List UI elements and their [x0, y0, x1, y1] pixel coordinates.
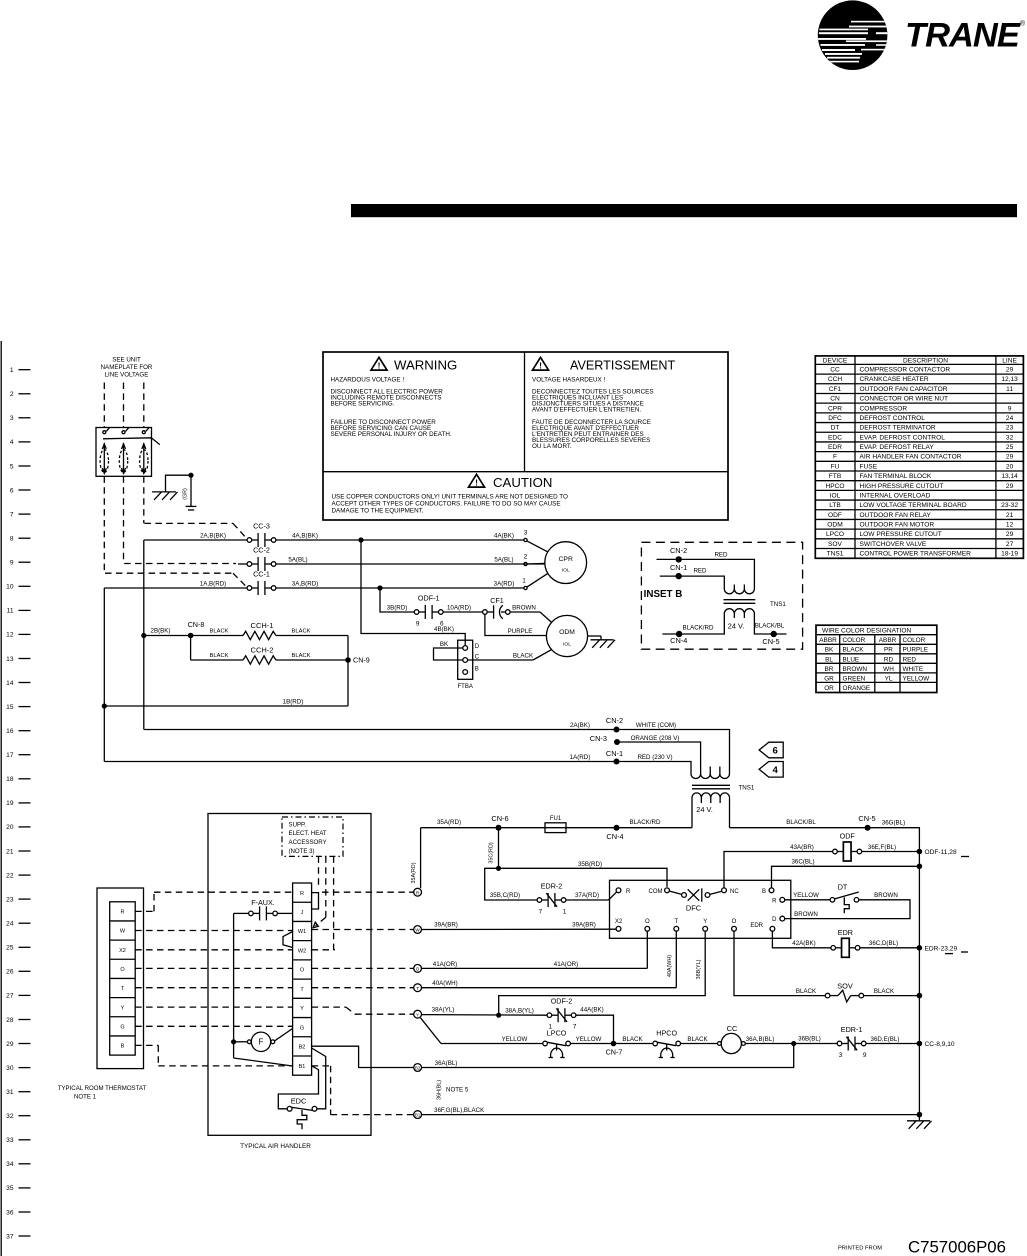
svg-text:23-32: 23-32 — [1001, 502, 1018, 509]
svg-text:BLACK: BLACK — [687, 1036, 708, 1043]
svg-text:33: 33 — [6, 1137, 14, 1144]
svg-text:COMPRESSOR CONTACTOR: COMPRESSOR CONTACTOR — [860, 367, 951, 374]
svg-text:R: R — [626, 889, 631, 895]
svg-text:LINE VOLTAGE: LINE VOLTAGE — [105, 372, 149, 379]
svg-text:EDR: EDR — [838, 928, 853, 937]
svg-text:36D,E(BL): 36D,E(BL) — [871, 1036, 900, 1043]
svg-text:O: O — [732, 919, 737, 925]
svg-text:2B(BK): 2B(BK) — [151, 628, 171, 635]
svg-text:CONNECTOR OR WIRE NUT: CONNECTOR OR WIRE NUT — [860, 396, 949, 403]
evap defrost control EDC — [287, 1106, 292, 1111]
svg-text:ODF-1: ODF-1 — [418, 594, 440, 603]
bus node at 36C — [917, 864, 923, 870]
node CN-9 — [345, 657, 351, 663]
svg-text:ACCEPT OTHER TYPES OF CONDUCTO: ACCEPT OTHER TYPES OF CONDUCTORS. FAILUR… — [332, 500, 561, 507]
wire 1B(RD) — [104, 705, 348, 707]
svg-text:B1: B1 — [415, 1113, 421, 1118]
svg-text:6: 6 — [773, 746, 778, 757]
wire CC-2 input stub — [238, 563, 247, 565]
svg-text:AVANT D'EFFECTUER L'ENTRETIEN.: AVANT D'EFFECTUER L'ENTRETIEN. — [532, 407, 641, 414]
svg-text:FTB: FTB — [829, 473, 842, 480]
wire 36C,D(BL) EDR to bus — [860, 947, 920, 949]
svg-text:EDR: EDR — [750, 923, 763, 929]
svg-text:16: 16 — [6, 728, 14, 735]
svg-text:TNS1: TNS1 — [739, 785, 755, 792]
junction node 38A — [496, 1013, 501, 1018]
svg-text:10: 10 — [6, 584, 14, 591]
wire 35B(RD) to DFC COM — [499, 868, 668, 887]
svg-text:ORANGE (208 V): ORANGE (208 V) — [631, 735, 680, 742]
svg-text:2: 2 — [10, 391, 14, 398]
svg-text:CPR: CPR — [559, 556, 573, 563]
avertissement triangle icon — [533, 357, 549, 370]
svg-text:38A(YL): 38A(YL) — [432, 1007, 455, 1014]
bus ground node — [917, 1112, 923, 1118]
svg-text:2: 2 — [524, 554, 528, 561]
svg-text:ORANGE: ORANGE — [843, 685, 871, 692]
svg-text:24: 24 — [6, 921, 14, 928]
junction node on 3A wire — [377, 585, 382, 590]
svg-text:USE COPPER CONDUCTORS ONLY! U: USE COPPER CONDUCTORS ONLY! UNIT TERMINA… — [332, 493, 569, 500]
ground node — [188, 473, 193, 478]
svg-text:COLOR: COLOR — [903, 637, 926, 644]
svg-text:2A(BK): 2A(BK) — [570, 722, 590, 729]
inset node CN-1 — [676, 573, 682, 579]
svg-text:CONTROL POWER TRANSFORMER: CONTROL POWER TRANSFORMER — [860, 551, 972, 558]
wire 38B(YL) DFC Y loop — [499, 931, 706, 1015]
svg-text:HIGH PRESSURE CUTOUT: HIGH PRESSURE CUTOUT — [860, 483, 944, 490]
wire 39A(BR) W to DFC X2 — [422, 928, 617, 930]
inset wire RED lower — [660, 576, 725, 584]
svg-text:1B(RD): 1B(RD) — [283, 698, 304, 705]
svg-text:R: R — [772, 898, 777, 904]
svg-text:Y: Y — [416, 1012, 419, 1017]
wire secondary right leg — [729, 803, 731, 828]
svg-text:G: G — [300, 1025, 304, 1031]
disconnect switch poles with fuses — [100, 428, 149, 474]
svg-text:T: T — [674, 919, 678, 925]
node CN-2 — [614, 727, 620, 733]
svg-text:1: 1 — [10, 367, 14, 374]
svg-text:ODF: ODF — [840, 832, 856, 841]
wire 36D,E(BL) to bus — [866, 1043, 920, 1045]
bus node at CC row — [917, 1041, 923, 1047]
earth ground symbol with [GR] tag — [190, 475, 192, 506]
low pressure cutout LPCO — [543, 1041, 548, 1046]
contactor contact CC-3 — [247, 533, 276, 547]
contactor contact CC-2 — [247, 557, 276, 571]
cable B1 to LTB B1 (dashed) — [312, 1065, 331, 1067]
svg-text:O: O — [645, 919, 650, 925]
svg-text:RD: RD — [884, 656, 894, 663]
svg-text:SUPP.: SUPP. — [289, 821, 307, 828]
svg-text:41A(OR): 41A(OR) — [554, 961, 578, 968]
node CN-6 — [496, 825, 502, 831]
svg-text:ODF-11,28: ODF-11,28 — [925, 849, 957, 856]
LTB terminal W — [414, 926, 422, 934]
inset B dashed boundary — [641, 542, 802, 649]
svg-text:T: T — [416, 986, 419, 991]
svg-text:OUTDOOR FAN CAPACITOR: OUTDOOR FAN CAPACITOR — [860, 386, 948, 393]
svg-text:30: 30 — [6, 1065, 14, 1072]
svg-text:4B(BK): 4B(BK) — [434, 626, 454, 633]
svg-text:W2: W2 — [298, 948, 306, 954]
svg-text:ODM: ODM — [827, 522, 842, 529]
wire 36A(BL) B2 riser — [422, 1044, 794, 1068]
wire 37A(RD) to DFC R — [566, 899, 609, 901]
svg-text:LPCO: LPCO — [826, 531, 844, 538]
svg-text:RED: RED — [903, 656, 917, 663]
fan aux contact F-AUX — [249, 906, 278, 920]
svg-text:IOL: IOL — [563, 641, 571, 647]
svg-text:24 V.: 24 V. — [728, 621, 745, 630]
svg-text:O: O — [416, 967, 420, 972]
crankcase heater CCH-2 — [243, 656, 276, 664]
svg-text:COMPRESSOR: COMPRESSOR — [860, 405, 908, 412]
svg-text:CPR: CPR — [828, 405, 842, 412]
wire 36F,G(BL),BLACK B1 to ground bus — [422, 1114, 920, 1116]
svg-text:EVAP. DEFROST CONTROL: EVAP. DEFROST CONTROL — [860, 434, 946, 441]
svg-text:WHITE (COM): WHITE (COM) — [636, 722, 676, 729]
disconnect operating bar — [103, 438, 160, 445]
svg-text:FU1: FU1 — [550, 816, 562, 822]
svg-text:40A(WH): 40A(WH) — [432, 980, 457, 987]
svg-text:Y: Y — [121, 1005, 125, 1011]
DFC terminal EDR — [770, 926, 775, 931]
svg-text:BLACK: BLACK — [874, 988, 895, 995]
node on 1B wire — [102, 703, 107, 708]
svg-text:CN-6: CN-6 — [491, 814, 508, 823]
fuse FU1 — [545, 823, 566, 833]
inset transformer secondary — [724, 609, 754, 618]
jumper W1 to W2 — [283, 932, 293, 948]
transformer TNS1 primary winding — [691, 767, 729, 779]
svg-text:PURPLE: PURPLE — [508, 628, 533, 635]
relay contact ODF-2 terminals 1-7 (NC) — [547, 1008, 576, 1022]
DFC terminal X2 — [616, 926, 621, 931]
defrost control DFC enclosure — [610, 880, 791, 938]
svg-text:39A(BR): 39A(BR) — [434, 922, 458, 929]
svg-text:LINE: LINE — [1002, 358, 1017, 365]
DFC terminal O2 — [732, 926, 737, 931]
svg-text:BLACK/RD: BLACK/RD — [630, 819, 661, 826]
air handler terminal strip — [293, 883, 312, 1075]
wire 38A(YL) — [422, 1014, 548, 1017]
svg-text:TRANE: TRANE — [905, 17, 1021, 55]
svg-text:B: B — [475, 667, 479, 673]
svg-text:BLACK/BL: BLACK/BL — [786, 819, 816, 826]
svg-text:CN-4: CN-4 — [670, 636, 687, 645]
svg-text:BROWN: BROWN — [843, 666, 868, 673]
dashed feeder L1 below disconnect — [103, 476, 105, 573]
svg-text:BLUE: BLUE — [843, 656, 860, 663]
svg-text:CN-8: CN-8 — [188, 620, 205, 629]
svg-text:YELLOW: YELLOW — [502, 1036, 528, 1043]
svg-text:CAUTION: CAUTION — [493, 475, 552, 490]
svg-text:NAMEPLATE FOR: NAMEPLATE FOR — [101, 364, 153, 371]
svg-text:B2: B2 — [415, 1066, 421, 1071]
svg-text:W1: W1 — [298, 929, 306, 935]
svg-text:DT: DT — [838, 882, 848, 891]
svg-text:SOV: SOV — [828, 541, 843, 548]
dashed feeder L2 below disconnect — [123, 476, 125, 563]
svg-text:HPCO: HPCO — [825, 483, 844, 490]
svg-text:PRINTED FROM: PRINTED FROM — [838, 1246, 882, 1252]
svg-text:DEFROST CONTROL: DEFROST CONTROL — [860, 415, 926, 422]
node CN-4 — [614, 825, 620, 831]
svg-text:37: 37 — [6, 1233, 14, 1240]
svg-text:4: 4 — [773, 765, 779, 776]
svg-text:!: ! — [378, 361, 381, 371]
svg-text:CC: CC — [727, 1024, 738, 1033]
svg-text:EDR-23,29: EDR-23,29 — [925, 945, 958, 952]
svg-text:41A(OR): 41A(OR) — [433, 961, 457, 968]
svg-text:VOLTAGE HASARDEUX !: VOLTAGE HASARDEUX ! — [532, 377, 605, 384]
svg-text:3: 3 — [839, 1052, 843, 1059]
node CN-5 — [865, 825, 871, 831]
svg-text:5A(BL): 5A(BL) — [494, 557, 513, 564]
svg-text:B: B — [762, 889, 766, 895]
LTB terminal T — [414, 984, 422, 992]
contactor contact CC-1 — [247, 581, 276, 595]
DFC terminal Y — [703, 926, 708, 931]
svg-text:CF1: CF1 — [829, 386, 842, 393]
svg-text:CRANKCASE HEATER: CRANKCASE HEATER — [860, 376, 929, 383]
svg-text:7: 7 — [10, 511, 14, 518]
cable T (dashed) — [135, 987, 292, 989]
svg-text:!: ! — [475, 478, 478, 488]
wire YELLOW LPCO to CN-7 — [571, 1043, 611, 1045]
svg-text:CCH-2: CCH-2 — [251, 646, 274, 655]
svg-text:HAZARDOUS VOLTAGE !: HAZARDOUS VOLTAGE ! — [331, 377, 405, 384]
disconnect switch box — [96, 428, 152, 477]
wire terminal3 to CPR — [527, 541, 548, 552]
wire 36E,F(BL) ODF to bus — [862, 851, 920, 853]
svg-text:ODF: ODF — [828, 512, 842, 519]
wire 42A(BK) EDR terminal to coil — [772, 931, 831, 948]
svg-text:BLACK: BLACK — [513, 652, 534, 659]
svg-text:®: ® — [1020, 20, 1026, 28]
bus node at SOV — [917, 993, 923, 999]
wire BLACK FTBA C to ODM — [468, 659, 533, 661]
DFC terminal O heat — [645, 926, 650, 931]
svg-text:EDR-1: EDR-1 — [841, 1025, 863, 1034]
inset wire BLACK/BL — [754, 618, 786, 634]
svg-text:29: 29 — [1006, 367, 1014, 374]
svg-text:28: 28 — [6, 1017, 14, 1024]
equipment ground wire — [166, 475, 190, 492]
cable X2 to W2 (dashed) — [135, 949, 292, 951]
svg-text:RED (230 V): RED (230 V) — [637, 754, 672, 761]
svg-text:36A,B(BL): 36A,B(BL) — [746, 1036, 775, 1043]
svg-text:BLACK: BLACK — [622, 1036, 643, 1043]
compressor motor CPR — [545, 542, 587, 584]
svg-text:AVERTISSEMENT: AVERTISSEMENT — [570, 359, 676, 373]
svg-text:HPCO: HPCO — [656, 1028, 677, 1037]
wire CCH-2 to CN-9 — [276, 659, 346, 661]
wire B2 to LTB B2 — [312, 1046, 414, 1067]
svg-text:YL: YL — [885, 675, 893, 682]
svg-text:CN-7: CN-7 — [606, 1047, 623, 1056]
jumper R to J — [312, 893, 319, 909]
svg-text:X2: X2 — [615, 919, 623, 925]
svg-text:35B,C(RD): 35B,C(RD) — [490, 892, 520, 899]
line voltage feeders (dashed) — [104, 383, 144, 428]
svg-text:36E,F(BL): 36E,F(BL) — [868, 844, 896, 851]
phase 2 vertical rail — [143, 540, 145, 730]
compressor contactor coil CC — [718, 1042, 722, 1046]
svg-text:NOTE 1: NOTE 1 — [74, 1094, 97, 1101]
svg-text:DFC: DFC — [828, 415, 842, 422]
svg-text:EDC: EDC — [291, 1097, 307, 1106]
reference flag 4 — [759, 762, 783, 778]
svg-text:CC-1: CC-1 — [253, 570, 270, 579]
device legend table — [815, 356, 1023, 558]
svg-text:1A(RD): 1A(RD) — [570, 754, 591, 761]
svg-text:19: 19 — [6, 800, 14, 807]
svg-text:35A(RD): 35A(RD) — [411, 862, 417, 883]
relay contact ODF-1 terminals 9-6 — [414, 605, 443, 619]
svg-text:SEVERE PERSONAL INJURY OR DEAT: SEVERE PERSONAL INJURY OR DEATH. — [331, 431, 452, 438]
svg-text:1: 1 — [522, 578, 526, 585]
svg-text:SWITCHOVER VALVE: SWITCHOVER VALVE — [860, 541, 927, 548]
svg-text:13: 13 — [6, 656, 14, 663]
high pressure cutout HPCO — [653, 1041, 658, 1046]
svg-text:INTERNAL OVERLOAD: INTERNAL OVERLOAD — [860, 492, 931, 499]
DFC terminal T — [674, 926, 679, 931]
svg-text:29: 29 — [1006, 454, 1014, 461]
wire 5A(BL) to CPR terminal 2 — [276, 563, 545, 565]
svg-text:NOTE 5: NOTE 5 — [446, 1087, 469, 1094]
wire secondary left leg to BLACK/RD rail — [691, 803, 693, 828]
wire YELLOW R to DT — [785, 899, 830, 901]
relay contact EDR-1 terminals 3-9 (NC) — [837, 1037, 866, 1051]
svg-text:11: 11 — [7, 608, 14, 615]
transformer TNS1 core — [692, 784, 730, 786]
wire ORANGE 208V tap — [617, 742, 701, 767]
svg-text:B: B — [121, 1044, 125, 1050]
svg-text:CN-9: CN-9 — [353, 656, 370, 665]
svg-text:43A(BR): 43A(BR) — [790, 844, 814, 851]
svg-text:CCH: CCH — [828, 376, 843, 383]
wire 40A(WH) T to DFC T — [422, 987, 677, 989]
svg-text:4A,B(BK): 4A,B(BK) — [292, 533, 318, 540]
wire BK jumper FTBA D to C — [434, 648, 463, 660]
svg-text:35: 35 — [6, 1185, 14, 1192]
svg-text:24: 24 — [1006, 415, 1014, 422]
svg-text:WIRE COLOR DESIGNATION: WIRE COLOR DESIGNATION — [822, 627, 912, 634]
svg-text:36F,G(BL),BLACK: 36F,G(BL),BLACK — [434, 1107, 485, 1114]
wire F coil to G — [275, 1029, 293, 1041]
svg-text:44A(BK): 44A(BK) — [580, 1007, 603, 1014]
DFC terminal B — [769, 888, 774, 893]
svg-text:BK: BK — [825, 647, 834, 654]
caution triangle icon — [469, 474, 485, 487]
svg-text:CN-5: CN-5 — [858, 814, 875, 823]
svg-text:FUSE: FUSE — [860, 463, 878, 470]
warning/caution box — [323, 352, 728, 520]
wire YELLOW Y drop to LPCO — [421, 1018, 442, 1044]
svg-text:INSET B: INSET B — [644, 589, 683, 600]
svg-text:G: G — [120, 1024, 124, 1030]
svg-text:R: R — [300, 891, 304, 897]
svg-text:DT: DT — [831, 425, 840, 432]
wire ODM to chassis ground — [588, 635, 601, 637]
svg-text:Y: Y — [703, 919, 707, 925]
svg-text:RED: RED — [714, 552, 728, 559]
svg-text:Y: Y — [300, 1006, 304, 1012]
svg-text:32: 32 — [1006, 434, 1014, 441]
wire 36A,B(BL) — [745, 1043, 837, 1045]
wire BROWN CF1 to ODM — [510, 611, 540, 613]
svg-text:1A,B(RD): 1A,B(RD) — [200, 581, 226, 588]
svg-text:OUTDOOR FAN RELAY: OUTDOOR FAN RELAY — [860, 512, 932, 519]
junction node on 4A wire — [358, 537, 363, 542]
svg-text:36B(BL): 36B(BL) — [798, 1035, 821, 1042]
svg-text:BEFORE SERVICING.: BEFORE SERVICING. — [331, 401, 395, 408]
fan terminal block FTBA — [458, 640, 473, 679]
wire terminal2 to CPR — [527, 562, 545, 565]
svg-text:IOL: IOL — [562, 568, 570, 574]
inset node CN-4 — [676, 631, 682, 637]
DFC terminal NC — [722, 888, 727, 893]
svg-text:14: 14 — [6, 680, 14, 687]
phase 1 vertical rail — [103, 588, 105, 762]
svg-text:BLACK: BLACK — [209, 653, 228, 659]
svg-text:F: F — [259, 1038, 264, 1047]
svg-text:24 V.: 24 V. — [696, 805, 713, 814]
svg-text:ODM: ODM — [559, 629, 575, 636]
svg-text:27: 27 — [6, 993, 14, 1000]
fan contactor coil F — [234, 1041, 248, 1043]
riser to LTB R terminal — [420, 828, 422, 889]
svg-text:36H(BL): 36H(BL) — [437, 1080, 443, 1100]
svg-text:2A,B(BK): 2A,B(BK) — [200, 533, 226, 540]
chassis ground at bus — [918, 1115, 920, 1121]
wire F-AUX to J — [277, 912, 292, 914]
svg-text:SOV: SOV — [837, 982, 853, 991]
supp heat dashed lead 1 — [318, 856, 320, 888]
relay coil ODF — [833, 849, 838, 854]
svg-text:13,14: 13,14 — [1001, 473, 1018, 480]
svg-text:B2: B2 — [299, 1045, 306, 1051]
wire 10A(RD) — [443, 611, 483, 613]
LTB terminal Y — [414, 1010, 422, 1018]
wire BLACK O2 to SOV — [734, 931, 825, 995]
svg-text:YELLOW: YELLOW — [793, 892, 819, 899]
svg-text:CC-3: CC-3 — [253, 522, 270, 531]
svg-text:DESCRIPTION: DESCRIPTION — [903, 358, 948, 365]
svg-text:BLACK/RD: BLACK/RD — [683, 625, 714, 632]
svg-text:TNS1: TNS1 — [770, 601, 786, 608]
svg-text:(NOTE 3): (NOTE 3) — [289, 848, 315, 855]
LTB terminal R — [414, 888, 422, 896]
svg-text:9: 9 — [863, 1052, 867, 1059]
svg-text:ACCESSORY: ACCESSORY — [289, 839, 327, 846]
svg-text:31: 31 — [6, 1089, 14, 1096]
svg-text:36: 36 — [6, 1209, 14, 1216]
svg-text:BLACK: BLACK — [291, 629, 310, 635]
svg-text:BLACK: BLACK — [291, 653, 310, 659]
defrost terminator DT — [830, 898, 835, 903]
svg-text:4: 4 — [10, 439, 14, 446]
svg-text:18-19: 18-19 — [1001, 551, 1018, 558]
wire F-AUX left rail to B1 — [234, 912, 249, 914]
wire BLACK HPCO to CC — [680, 1043, 717, 1045]
inset node CN-5 — [771, 631, 777, 637]
svg-text:F: F — [833, 454, 837, 461]
wire PURPLE to ODM — [485, 614, 547, 635]
